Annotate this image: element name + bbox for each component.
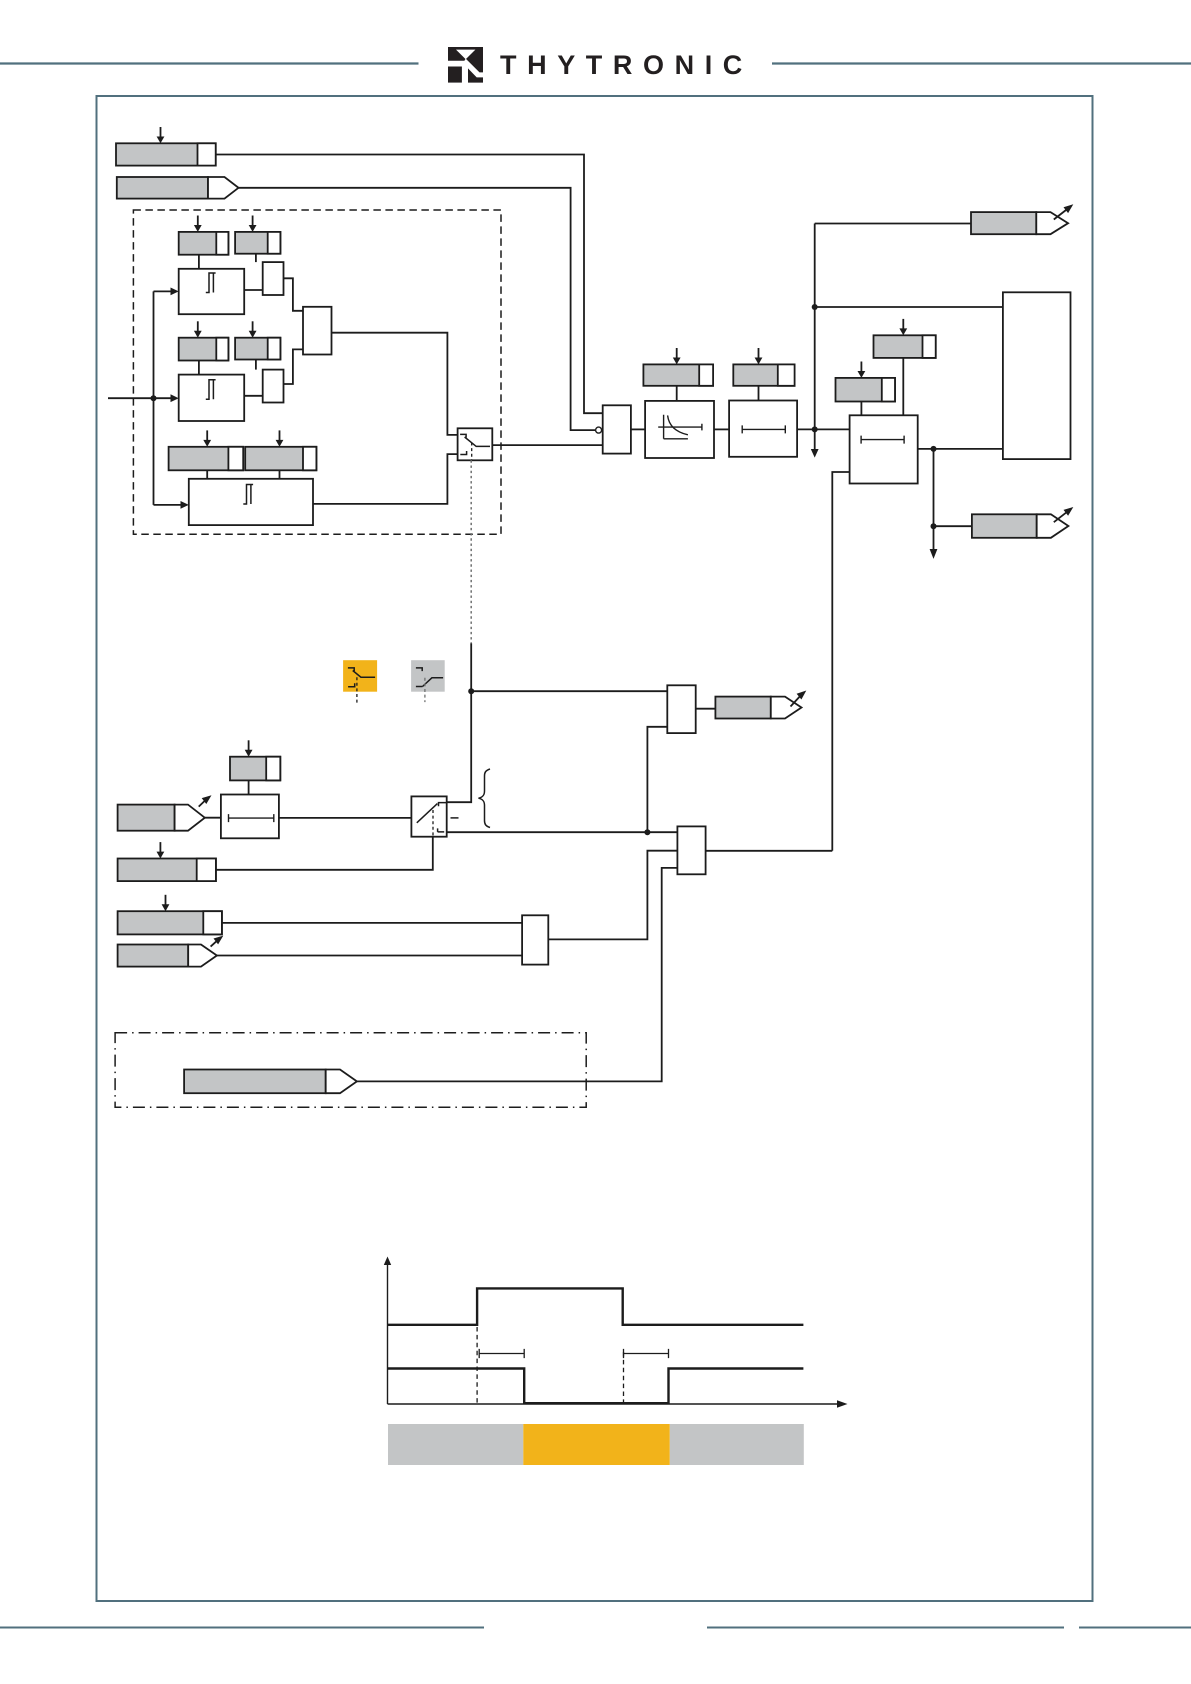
- wire switch2 bottom pin to GI: [216, 837, 433, 870]
- arrow into TL: [245, 740, 253, 756]
- comparator block 2: [179, 375, 245, 421]
- timer2 icon: [742, 425, 785, 433]
- switch2 bottom contact bracket: [438, 828, 445, 832]
- junction dot on OR2 input wire: [644, 829, 650, 835]
- wire PI to timerL: [205, 817, 221, 819]
- arrow into GI: [157, 842, 165, 858]
- wire comparator2 to b2: [244, 395, 263, 397]
- and gate b1: [263, 262, 284, 295]
- inverse-time block: [645, 401, 714, 458]
- arrow on B4 tip: [211, 936, 224, 947]
- delay span marker 1: [479, 1349, 524, 1358]
- timerL block: [221, 795, 279, 839]
- junction dot at matrix feed: [812, 304, 818, 310]
- connector S1a to comparator1: [198, 255, 200, 269]
- wire B1 to gate input 1: [216, 155, 603, 414]
- connector T3a to timer3: [902, 358, 904, 415]
- setting box T3b: [836, 378, 896, 402]
- connector ST2 to timer2: [758, 386, 760, 401]
- wire G2 to OR2 input 2: [548, 851, 677, 940]
- wire b2 to or-combiner: [284, 349, 304, 384]
- switch1 box: [458, 428, 493, 460]
- arrow out of O1: [1054, 204, 1074, 219]
- junction dot at O2 tap: [931, 523, 937, 529]
- state bar yellow middle: [523, 1424, 670, 1465]
- comparator block 1: [179, 269, 245, 314]
- dashed edge marker 1: [476, 1327, 478, 1403]
- setting box S2b: [235, 338, 280, 360]
- state bar gray right: [670, 1424, 804, 1465]
- junction dot timer3 output: [931, 446, 937, 452]
- wire OR1 to output O3: [696, 708, 716, 710]
- wire OR2 output: [706, 850, 833, 852]
- rail arrow into comparator2: [154, 394, 179, 402]
- label box LD (pointed) inside dash-dot box: [184, 1070, 357, 1094]
- comparator1 pulse icon: [206, 273, 216, 293]
- setting box S3b: [245, 447, 316, 471]
- arrow into S3a: [203, 430, 211, 446]
- input label box B4 (pointed): [118, 945, 217, 967]
- timer2 block: [729, 401, 797, 457]
- timing x-axis: [388, 1400, 848, 1407]
- arrow into B1: [157, 127, 165, 143]
- wire to output O2: [934, 525, 972, 527]
- gate G2 box: [522, 915, 548, 964]
- arrow into S1a: [194, 216, 202, 232]
- or-combiner box: [303, 307, 332, 355]
- header rule left: [0, 62, 419, 64]
- curly brace: [479, 769, 491, 828]
- output label box O3: [715, 697, 801, 719]
- arrow into S3b: [276, 430, 284, 446]
- wire inverse-time to timer2: [714, 428, 729, 430]
- setting box TL: [230, 757, 280, 781]
- pointed input box PI (left middle): [118, 805, 205, 831]
- comparator2 pulse icon: [206, 380, 216, 400]
- timer3 block-input stub from OR2: [832, 472, 849, 851]
- setting box S3a: [169, 447, 244, 471]
- timer3 block: [850, 415, 918, 483]
- wire or-combiner to switch1 top throw: [332, 333, 458, 435]
- wire timer2 to node T: [797, 428, 850, 430]
- wire gate to inverse-time block: [631, 428, 645, 430]
- wire B4 to gate G2: [217, 955, 522, 957]
- main input line: [108, 397, 154, 399]
- input label box B2 (pointed): [117, 177, 239, 199]
- output matrix block: [1003, 292, 1071, 459]
- wire switch2 output to OR2: [447, 831, 678, 833]
- wire OR1 input 2 riser: [647, 727, 667, 832]
- connector S2a to comparator2: [198, 361, 200, 375]
- wire b1 to or-combiner: [284, 278, 304, 311]
- setting box S1b: [235, 232, 280, 254]
- arrow out of O3: [791, 691, 807, 707]
- legend gray switch box: [411, 660, 445, 702]
- comparator3 pulse icon: [243, 485, 253, 505]
- footer rule segment 2: [707, 1627, 1064, 1629]
- header rule right: [772, 62, 1191, 64]
- connector TL to timerL: [248, 780, 250, 794]
- connector SI to inverse-time block: [676, 386, 678, 401]
- dotted actuator wire from switch1 down: [470, 460, 472, 643]
- input label box B3: [118, 911, 222, 934]
- arrow out of O2: [1054, 507, 1074, 522]
- dash-dot group box: [115, 1033, 586, 1108]
- connector T3b to timer3: [860, 402, 862, 416]
- arrow into S1b: [249, 216, 257, 232]
- waveform 1: [388, 1288, 804, 1324]
- setting box SI (curve setting): [643, 364, 713, 385]
- wire to output O1: [815, 223, 971, 225]
- wire OR2 input 3 riser: [357, 868, 678, 1082]
- setting box T3a: [874, 335, 936, 358]
- switch2 dashed actuator: [432, 810, 434, 837]
- arrow into S2a: [194, 321, 202, 337]
- wire B3 to gate G2: [222, 922, 522, 924]
- arrow into B3: [162, 895, 170, 911]
- switch2 top contact: [439, 803, 447, 807]
- junction dot on actuator wire: [468, 688, 474, 694]
- arrow into T3a: [899, 319, 907, 335]
- input rail junction dot: [151, 395, 157, 401]
- vertical from timer3 output down: [933, 449, 935, 526]
- setting box S2a: [179, 338, 229, 361]
- rail arrow into comparator1: [154, 288, 179, 296]
- switch2 box: [411, 796, 446, 836]
- switch2 lever: [417, 804, 438, 823]
- wire B2 to gate bubble input: [239, 188, 596, 430]
- wire comparator3 to switch1 bottom throw: [313, 454, 458, 504]
- connector S2b to and-b2: [255, 360, 257, 370]
- state bar gray left: [388, 1424, 523, 1465]
- output label box O1: [971, 212, 1068, 234]
- wire timer3 output to matrix: [918, 448, 1003, 450]
- gate bubble (inverted input): [596, 427, 602, 433]
- arrow into T3b: [858, 362, 866, 378]
- switch2 open throw stub: [451, 817, 459, 819]
- and gate b2: [263, 370, 284, 403]
- switch1 top contact bracket: [460, 434, 466, 437]
- switch1 dashed actuator line: [471, 443, 473, 461]
- footer rule segment 1: [0, 1627, 484, 1629]
- OR2 gate box: [677, 826, 705, 874]
- connector S3a to comparator3: [206, 470, 208, 479]
- inverse-time curve icon: [658, 415, 702, 439]
- input label box B1: [116, 143, 216, 165]
- switch1 lever and common: [465, 437, 490, 446]
- legend yellow switch box: [343, 660, 377, 703]
- switch1 bottom contact bracket: [460, 451, 466, 455]
- wire timerL to switch2: [279, 817, 412, 819]
- footer rule segment 3: [1079, 1627, 1191, 1629]
- node T junction dot: [812, 426, 818, 432]
- input rail vertical: [153, 291, 155, 505]
- vertical bus from node T up: [814, 224, 816, 430]
- dashed function group box: [133, 210, 501, 534]
- down-arrow stub below O2 tap: [930, 526, 938, 559]
- connector S1b to and-b1: [255, 254, 257, 262]
- connector S3b to comparator3: [279, 470, 281, 479]
- wire bus to matrix block: [815, 306, 1003, 308]
- wire comparator1 to b1: [244, 289, 263, 291]
- rail arrow into comparator3: [154, 501, 189, 509]
- setting box S1a: [179, 232, 229, 255]
- timing y-axis: [384, 1257, 391, 1405]
- arrow into S2b: [249, 321, 257, 337]
- wire junction to OR1 input 1: [471, 690, 667, 692]
- timer3 icon: [861, 436, 904, 444]
- arrow into ST2: [755, 348, 763, 364]
- input label box GI: [118, 859, 216, 882]
- page frame border: [97, 96, 1093, 1601]
- setting box ST2: [733, 364, 794, 385]
- svg-text:THYTRONIC: THYTRONIC: [500, 50, 753, 80]
- waveform 2: [388, 1369, 804, 1404]
- timerL icon: [229, 814, 274, 822]
- dashed edge marker 2: [623, 1352, 625, 1403]
- and gate U1: [603, 405, 631, 453]
- comparator block 3: [189, 479, 313, 525]
- wire switch1 to gate input 3: [492, 444, 602, 446]
- OR1 gate box: [667, 685, 695, 733]
- output label box O2: [972, 514, 1069, 538]
- node T down-arrow stub: [811, 429, 819, 457]
- arrow into SI: [673, 348, 681, 364]
- logo THYTRONIC mark: [448, 47, 483, 83]
- solid wire continuing down to switch2: [447, 643, 472, 802]
- delay span marker 2: [624, 1349, 669, 1358]
- arrow on PI tip: [199, 795, 212, 806]
